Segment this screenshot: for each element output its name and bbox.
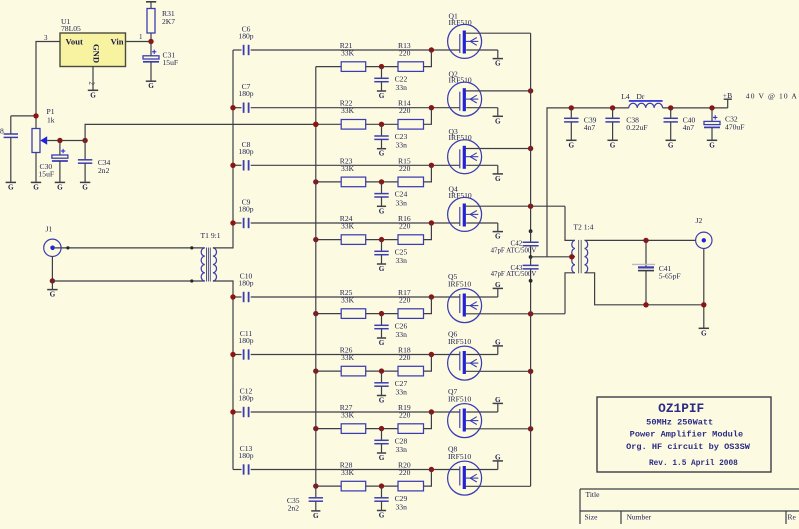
svg-text:1k: 1k xyxy=(47,116,55,125)
svg-text:5-65pF: 5-65pF xyxy=(659,272,681,281)
svg-text:78L05: 78L05 xyxy=(61,24,81,33)
svg-text:8: 8 xyxy=(0,127,4,136)
ground (U1 GND) xyxy=(88,90,98,99)
capacitor C41 5-65pF trimmer xyxy=(632,240,681,304)
capacitor C34 xyxy=(78,141,111,183)
svg-text:180p: 180p xyxy=(238,279,253,288)
resistor R23 33K xyxy=(340,156,366,186)
node drain bus junction Q5 xyxy=(528,311,533,316)
svg-text:G: G xyxy=(495,281,501,289)
node cap bus junction C7 xyxy=(230,105,235,110)
capacitor C12 180p xyxy=(233,387,254,418)
resistor R26 33K xyxy=(340,346,366,376)
svg-text:33n: 33n xyxy=(396,198,408,207)
wire mid node xyxy=(366,370,398,372)
resistor R14 220 xyxy=(398,99,424,129)
wire mid node xyxy=(366,123,398,125)
capacitor C42 47pF xyxy=(491,231,539,257)
svg-text:2K7: 2K7 xyxy=(162,17,175,26)
capacitor C35 2n2 xyxy=(287,496,323,512)
svg-text:15uF: 15uF xyxy=(163,58,179,67)
wire to gate xyxy=(424,108,432,125)
node bias bus junction row 4 xyxy=(313,237,318,242)
node drain bus junction Q6 xyxy=(528,369,533,374)
resistor R18 220 xyxy=(398,346,424,376)
capacitor C39 4n7 xyxy=(564,108,597,140)
node drain bus junction Q7 xyxy=(528,426,533,431)
wire gate line xyxy=(251,49,460,51)
capacitor C10 180p xyxy=(233,272,254,303)
resistor R17 220 xyxy=(398,288,424,318)
svg-text:15uF: 15uF xyxy=(39,170,55,179)
node gate junction Q5 xyxy=(429,294,434,299)
wire to gate xyxy=(424,412,432,429)
capacitor C8 180p xyxy=(233,140,254,171)
capacitor C23 33n xyxy=(374,124,407,149)
svg-text:Dr: Dr xyxy=(636,92,644,101)
svg-text:180p: 180p xyxy=(238,147,253,156)
resistor R13 220 xyxy=(398,41,424,71)
capacitor C6 180p xyxy=(233,25,254,56)
svg-text:220: 220 xyxy=(399,468,411,477)
node gate junction Q2 xyxy=(429,105,434,110)
svg-text:40 V @ 10 A: 40 V @ 10 A xyxy=(746,92,798,101)
svg-text:OZ1PIF: OZ1PIF xyxy=(658,401,704,416)
svg-text:G: G xyxy=(379,454,385,462)
svg-text:G: G xyxy=(379,265,385,273)
ground (C38) xyxy=(607,140,617,149)
wire R26 bias line xyxy=(316,370,341,372)
capacitor C7 180p xyxy=(233,82,254,113)
wire source Q3 xyxy=(466,164,498,166)
svg-text:J2: J2 xyxy=(696,216,703,225)
ground (source Q3) xyxy=(493,174,503,183)
svg-text:220: 220 xyxy=(399,353,411,362)
wire drain Q7 xyxy=(465,428,531,430)
ground (C25) xyxy=(377,264,386,273)
svg-text:33n: 33n xyxy=(396,503,408,512)
node cap bus junction C10 xyxy=(230,294,235,299)
ground (source Q7) flipped xyxy=(493,396,503,404)
svg-text:G: G xyxy=(495,338,501,346)
svg-text:33K: 33K xyxy=(341,468,355,477)
power terminal +B xyxy=(723,91,732,108)
inductor L4 Dr xyxy=(621,92,662,108)
ground (C31) xyxy=(146,81,156,90)
wire mid node xyxy=(366,239,398,241)
wire T2 primary bottom xyxy=(565,273,575,314)
ground (source Q2) xyxy=(493,116,503,125)
wire pin 1 Vin xyxy=(126,41,152,43)
node gate junction Q4 xyxy=(429,220,434,225)
svg-text:IRF510: IRF510 xyxy=(448,395,471,404)
ground (source Q5) flipped xyxy=(493,281,503,289)
node gate junction Q3 xyxy=(429,163,434,168)
capacitor C13 180p xyxy=(233,444,254,475)
node C41 bottom junction xyxy=(643,302,648,307)
capacitor C29 33n xyxy=(374,486,407,511)
wire gate line xyxy=(251,107,460,109)
node Vin junction xyxy=(148,39,153,44)
node bias feed junction xyxy=(313,122,318,127)
wire gate line xyxy=(251,222,460,224)
ground (source Q1) xyxy=(493,59,503,68)
wire pin 2 GND xyxy=(88,67,96,91)
capacitor C30 xyxy=(39,141,68,183)
ground (left cap) xyxy=(6,182,16,191)
svg-text:180p: 180p xyxy=(238,205,253,214)
wire source Q1 xyxy=(466,49,498,51)
svg-text:33K: 33K xyxy=(341,164,355,173)
svg-text:G: G xyxy=(33,183,39,191)
transformer T2 1:4 xyxy=(572,222,594,273)
node mid junction row 6 xyxy=(379,368,384,373)
capacitor C31 xyxy=(143,42,178,81)
wire to gate xyxy=(424,50,432,67)
svg-text:33K: 33K xyxy=(341,353,355,362)
node C41 top junction xyxy=(643,238,648,243)
svg-text:47pF ATC/500V: 47pF ATC/500V xyxy=(491,271,537,278)
capacitor C40 4n7 xyxy=(664,108,696,140)
wire R23 bias line xyxy=(316,181,341,183)
ground (source Q4) xyxy=(493,232,503,241)
node cap bus junction C12 xyxy=(230,409,235,414)
svg-text:220: 220 xyxy=(399,222,411,231)
wire T1 primary bottom xyxy=(52,280,204,282)
drawing frame bottom right xyxy=(580,489,799,524)
svg-text:G: G xyxy=(495,233,501,241)
svg-text:33K: 33K xyxy=(341,49,355,58)
svg-text:G: G xyxy=(610,141,616,149)
svg-text:180p: 180p xyxy=(238,336,253,345)
svg-text:G: G xyxy=(313,512,319,520)
wire gate line xyxy=(251,164,460,166)
node J2 ground junction xyxy=(701,302,706,307)
wire J2 shield xyxy=(703,248,705,328)
svg-text:J1: J1 xyxy=(46,225,53,234)
svg-text:G: G xyxy=(701,329,707,337)
capacitor C43 47pF xyxy=(491,257,539,281)
node C43 bottom junction xyxy=(529,279,533,283)
node rail junction C39 xyxy=(569,105,574,110)
svg-text:33K: 33K xyxy=(341,296,355,305)
wire to gate xyxy=(424,470,432,487)
transistor Q8 IRF510 xyxy=(448,444,482,495)
resistor R22 33K xyxy=(340,99,366,129)
svg-text:G: G xyxy=(90,91,96,99)
svg-text:G: G xyxy=(495,453,501,461)
wire R25 bias line xyxy=(316,313,341,315)
potentiometer P1 1k xyxy=(32,107,55,182)
resistor R20 220 xyxy=(398,461,424,491)
wire R21 bias line xyxy=(316,66,341,68)
node cap bus junction C8 xyxy=(230,163,235,168)
svg-text:180p: 180p xyxy=(238,89,253,98)
ground (C30) xyxy=(55,182,65,191)
capacitor C24 33n xyxy=(374,182,407,207)
svg-text:Number: Number xyxy=(627,512,652,521)
capacitor C25 33n xyxy=(374,240,407,265)
IC U1 78L05 voltage regulator xyxy=(60,17,126,67)
wire bias feed to resistor bus xyxy=(85,124,316,140)
svg-text:G: G xyxy=(148,82,154,90)
transistor Q6 IRF510 xyxy=(448,329,482,380)
node bias bus junction row 8 xyxy=(313,483,318,488)
ground (C23) xyxy=(377,149,386,158)
node phasing dot T1 top xyxy=(190,246,193,249)
wire drain Q5 xyxy=(465,313,565,315)
node bias bus junction row 7 xyxy=(313,426,318,431)
node rail junction C40 xyxy=(668,105,673,110)
connector J1 xyxy=(44,225,61,257)
wire mid node xyxy=(366,428,398,430)
wire drain Q4 xyxy=(465,205,565,207)
capacitor C22 33n xyxy=(374,67,407,92)
svg-text:33n: 33n xyxy=(396,83,408,92)
ground (C26) xyxy=(377,338,386,347)
wire gate line xyxy=(251,469,460,471)
wire gate line xyxy=(251,411,460,413)
svg-text:G: G xyxy=(50,291,56,299)
node mid junction row 7 xyxy=(379,426,384,431)
svg-text:G: G xyxy=(569,141,575,149)
wire drain bus top bank xyxy=(530,33,532,231)
svg-text:2n2: 2n2 xyxy=(98,166,110,175)
svg-text:Size: Size xyxy=(585,512,599,521)
svg-text:220: 220 xyxy=(399,411,411,420)
resistor R16 220 xyxy=(398,214,424,244)
node mid junction row 2 xyxy=(379,122,384,127)
node mid junction row 1 xyxy=(379,64,384,69)
node gate junction Q7 xyxy=(429,409,434,414)
wire bias bus xyxy=(315,67,317,498)
svg-text:GND: GND xyxy=(92,44,102,63)
svg-text:Re: Re xyxy=(788,512,797,521)
node J1 ground junction xyxy=(50,278,55,283)
svg-text:470uF: 470uF xyxy=(725,122,744,131)
node phasing dot near J1 xyxy=(66,246,69,249)
ground (C35) xyxy=(311,511,320,520)
node gate junction Q6 xyxy=(429,352,434,357)
node mid junction row 4 xyxy=(379,237,384,242)
ground (source Q6) flipped xyxy=(493,338,503,346)
resistor R28 33K xyxy=(340,461,366,491)
ground (C29) xyxy=(377,511,386,520)
svg-text:IRF510: IRF510 xyxy=(448,452,471,461)
wire drain Q8 xyxy=(465,485,531,487)
resistor R25 33K xyxy=(340,288,366,318)
title block OZ1PIF xyxy=(597,397,771,472)
node bias bus junction row 6 xyxy=(313,368,318,373)
svg-text:IRF510: IRF510 xyxy=(448,337,471,346)
svg-text:180p: 180p xyxy=(238,451,253,460)
wire to gate xyxy=(424,223,432,240)
capacitor C28 33n xyxy=(374,429,407,454)
node bias bus junction row 3 xyxy=(313,179,318,184)
svg-text:T1 9:1: T1 9:1 xyxy=(201,231,221,240)
svg-text:33K: 33K xyxy=(341,222,355,231)
ground (C32) xyxy=(707,140,717,149)
svg-text:33n: 33n xyxy=(396,445,408,454)
transistor Q4 IRF510 xyxy=(448,185,482,232)
svg-text:+B: +B xyxy=(723,91,732,100)
wire T2 primary top xyxy=(565,206,575,240)
svg-text:220: 220 xyxy=(399,164,411,173)
svg-text:G: G xyxy=(495,396,501,404)
wire to gate xyxy=(424,355,432,372)
node C42 top junction xyxy=(529,229,533,233)
node T2 center tap xyxy=(569,254,574,259)
svg-text:G: G xyxy=(379,512,385,520)
transformer T1 9:1 xyxy=(201,231,221,282)
svg-text:G: G xyxy=(495,175,501,183)
wire gate line xyxy=(251,354,460,356)
capacitor C26 33n xyxy=(374,314,407,339)
resistor R27 33K xyxy=(340,403,366,433)
ground (C34) xyxy=(80,182,90,191)
ground (source Q8) flipped xyxy=(493,453,503,461)
node cap bus junction C9 xyxy=(230,220,235,225)
wire source Q5 xyxy=(466,296,498,298)
wire R28 bias line xyxy=(316,485,341,487)
svg-text:IRF510: IRF510 xyxy=(448,280,471,289)
svg-text:4n7: 4n7 xyxy=(584,123,596,132)
svg-text:Vout: Vout xyxy=(66,36,83,46)
node cap bus junction C11 xyxy=(230,352,235,357)
svg-text:Title: Title xyxy=(586,490,601,499)
transistor Q3 IRF510 xyxy=(448,127,482,174)
svg-text:Rev. 1.5 April 2008: Rev. 1.5 April 2008 xyxy=(649,460,738,468)
ground (P1) xyxy=(31,182,41,191)
svg-text:3: 3 xyxy=(44,34,48,42)
wire gate line xyxy=(251,296,460,298)
wire to gate xyxy=(424,297,432,314)
svg-text:T2 1:4: T2 1:4 xyxy=(573,222,593,231)
svg-text:G: G xyxy=(495,60,501,68)
transistor Q7 IRF510 xyxy=(448,387,482,438)
wire to gate xyxy=(424,165,432,182)
ground (C40) xyxy=(666,140,676,149)
capacitor C32 470uF xyxy=(704,108,744,140)
wire J1 shield down xyxy=(51,257,53,281)
wire R24 bias line xyxy=(316,239,341,241)
wire mid node xyxy=(366,66,398,68)
svg-text:G: G xyxy=(379,397,385,405)
wire mid node xyxy=(366,485,398,487)
node gate junction Q1 xyxy=(429,47,434,52)
resistor R19 220 xyxy=(398,403,424,433)
node C42/C43 mid junction xyxy=(529,255,533,259)
wire pin 3 Vout xyxy=(36,42,60,129)
capacitor C27 33n xyxy=(374,371,407,396)
ground (J2) xyxy=(699,328,709,337)
node bias bus junction row 5 xyxy=(313,311,318,316)
svg-text:180p: 180p xyxy=(238,32,253,41)
svg-text:G: G xyxy=(379,339,385,347)
node drain bus junction Q4 xyxy=(528,204,533,209)
resistor R24 33K xyxy=(340,214,366,244)
svg-text:2: 2 xyxy=(88,82,96,86)
svg-text:220: 220 xyxy=(399,106,411,115)
svg-text:G: G xyxy=(379,92,385,100)
svg-text:33K: 33K xyxy=(341,106,355,115)
connector J2 xyxy=(696,216,713,249)
svg-text:G: G xyxy=(8,183,14,191)
svg-text:Power Amplifier Module: Power Amplifier Module xyxy=(630,430,743,440)
capacitor (left edge, label cut "8") xyxy=(0,116,18,182)
node mid junction row 5 xyxy=(379,311,384,316)
wire drain Q1 xyxy=(465,32,531,34)
node phasing dot T1 bottom xyxy=(190,279,193,282)
wire T1 secondary top to cap bus xyxy=(213,50,233,248)
svg-text:G: G xyxy=(57,183,63,191)
node gate junction Q8 xyxy=(429,467,434,472)
wire mid node xyxy=(366,313,398,315)
capacitor C38 0.22uF xyxy=(605,108,647,140)
node rail junction C32 xyxy=(709,105,714,110)
node wiper junction C30 xyxy=(57,138,62,143)
wire drain Q6 xyxy=(465,370,531,372)
resistor R31 xyxy=(146,2,175,42)
capacitor C11 180p xyxy=(233,329,254,360)
svg-text:4n7: 4n7 xyxy=(683,123,695,132)
svg-text:C42: C42 xyxy=(511,239,523,247)
svg-text:220: 220 xyxy=(399,49,411,58)
wire mid node xyxy=(366,181,398,183)
resistor R21 33K xyxy=(340,41,366,71)
wire drain Q2 xyxy=(465,90,531,92)
svg-text:33n: 33n xyxy=(396,141,408,150)
svg-text:33n: 33n xyxy=(396,330,408,339)
node drain bus junction Q3 xyxy=(528,146,533,151)
svg-text:50MHz 250Watt: 50MHz 250Watt xyxy=(646,418,713,428)
svg-text:Vin: Vin xyxy=(111,36,124,46)
svg-text:220: 220 xyxy=(399,296,411,305)
node rail junction C38 xyxy=(610,105,615,110)
wire drain Q3 xyxy=(465,148,531,150)
svg-text:1: 1 xyxy=(139,33,143,41)
svg-text:47pF ATC/500V: 47pF ATC/500V xyxy=(491,248,537,255)
svg-text:G: G xyxy=(379,207,385,215)
capacitor C9 180p xyxy=(233,198,254,229)
wire source Q7 xyxy=(466,411,498,413)
svg-text:180p: 180p xyxy=(238,394,253,403)
wire P1 wiper xyxy=(47,140,85,142)
resistor R15 220 xyxy=(398,156,424,186)
svg-text:Org. HF circuit by OS3SW: Org. HF circuit by OS3SW xyxy=(626,442,751,452)
svg-text:33n: 33n xyxy=(396,388,408,397)
svg-text:G: G xyxy=(495,117,501,125)
svg-text:0.22uF: 0.22uF xyxy=(626,123,647,132)
wire source Q2 xyxy=(466,107,498,109)
wire source Q8 xyxy=(466,469,498,471)
svg-text:G: G xyxy=(709,141,715,149)
node drain bus junction Q2 xyxy=(528,88,533,93)
transistor Q1 IRF510 xyxy=(448,12,482,59)
node mid junction row 8 xyxy=(379,483,384,488)
wire bias node xyxy=(11,115,36,117)
transistor Q2 IRF510 xyxy=(448,69,482,116)
wire R27 bias line xyxy=(316,428,341,430)
wire drain bus bottom bank xyxy=(530,281,532,487)
node bias bus junction row 2 xyxy=(313,122,318,127)
wire +B power rail xyxy=(547,108,629,257)
svg-text:2n2: 2n2 xyxy=(288,503,300,512)
ground (J1) xyxy=(47,281,57,299)
ground (C22) xyxy=(377,91,386,100)
wire source Q4 xyxy=(466,222,498,224)
ground (C39) xyxy=(566,140,576,149)
